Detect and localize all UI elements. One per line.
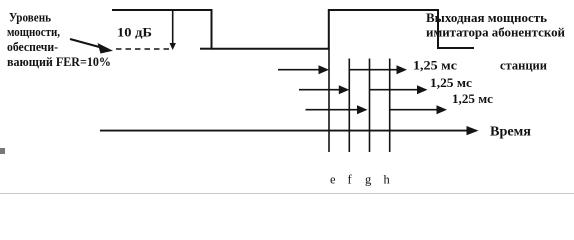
row 2: arrow from node g to label <box>370 85 428 94</box>
row 3: arrow into node g <box>306 105 368 114</box>
row 1: arrow from node f to label <box>349 65 407 74</box>
vertical line at node h <box>389 59 391 153</box>
scan artifact: left edge mark <box>0 148 5 154</box>
row 2: arrow into node f <box>299 85 349 94</box>
svg-text:станции: станции <box>500 59 547 73</box>
row 3: arrow from node h to label <box>390 105 447 114</box>
vertical line at node e (rising edge extension) <box>328 49 330 152</box>
svg-text:h: h <box>384 173 391 187</box>
svg-text:обеспечи-: обеспечи- <box>7 40 58 54</box>
svg-text:1,25 мс: 1,25 мс <box>413 58 458 72</box>
vertical line at node g <box>369 59 371 153</box>
svg-text:1,25 мс: 1,25 мс <box>430 76 472 90</box>
scan artifact: faint bottom edge line <box>0 193 574 195</box>
svg-text:имитатора абонентской: имитатора абонентской <box>426 26 565 40</box>
svg-text:мощности,: мощности, <box>7 25 60 39</box>
annotation arrow from text to dashed level <box>70 39 113 54</box>
down arrow (10 dB drop) <box>170 10 176 50</box>
svg-text:10 дБ: 10 дБ <box>117 26 152 40</box>
svg-text:Время: Время <box>490 124 531 139</box>
time axis <box>100 126 479 135</box>
svg-text:e: e <box>330 173 336 187</box>
svg-text:Уровень: Уровень <box>9 11 51 25</box>
low-level line left overshoot <box>200 48 212 50</box>
label: left text block "Уровень мощности, обеспечи- вающий FER=10%" <box>7 11 111 70</box>
pulse waveform (output power of subscriber station simulator) <box>112 10 474 49</box>
svg-text:Выходная мощность: Выходная мощность <box>426 11 547 25</box>
svg-text:g: g <box>365 173 372 187</box>
vertical line at node f <box>348 59 350 153</box>
right text block "Выходная мощность имитатора абонентской станции" <box>426 11 565 73</box>
dashed reference level line (FER=10% level) <box>116 48 170 50</box>
row 1: arrow into node e <box>278 65 329 74</box>
svg-text:1,25 мс: 1,25 мс <box>452 92 493 106</box>
svg-text:вающий FER=10%: вающий FER=10% <box>7 55 111 69</box>
